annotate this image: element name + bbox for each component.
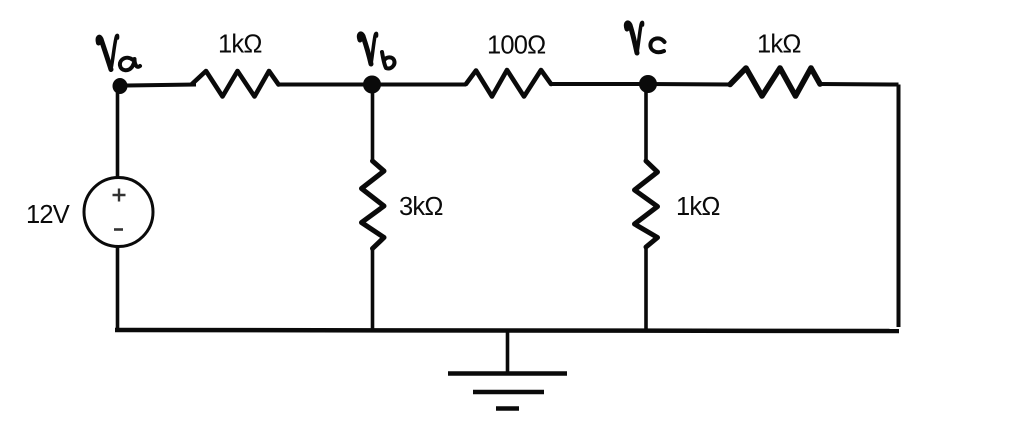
plus sign	[113, 189, 126, 202]
wire R3 to right corner	[820, 82, 899, 87]
wire Vb to R2	[372, 83, 466, 87]
wire right vertical	[897, 85, 901, 328]
wire source to bottom rail	[116, 246, 120, 330]
node A (Va)	[113, 78, 128, 94]
wire R1 to Vb	[279, 83, 367, 87]
svg-text:3kΩ: 3kΩ	[399, 193, 443, 221]
wire R5 to bottom rail	[644, 247, 648, 330]
node C (Vc)	[639, 75, 657, 93]
resistor R4 3kΩ	[362, 161, 385, 249]
wire Va to R1	[123, 85, 196, 86]
resistor R3 1kΩ right	[730, 68, 820, 96]
svg-text:12V: 12V	[26, 201, 70, 229]
svg-text:100Ω: 100Ω	[487, 32, 545, 60]
ground	[448, 331, 567, 409]
wire Vc down to R5	[644, 84, 648, 161]
minus sign	[114, 228, 123, 231]
resistor R2 100Ω	[466, 70, 551, 97]
svg-text:1kΩ: 1kΩ	[757, 31, 801, 59]
wire Vb down to R4	[371, 85, 375, 162]
node label Vc	[626, 22, 664, 53]
svg-text:1kΩ: 1kΩ	[676, 193, 720, 221]
wire Va down to source	[116, 86, 120, 178]
wire R2 to Vc	[551, 82, 642, 86]
wire Vc to R3	[648, 82, 731, 87]
voltage source V1 12V	[84, 178, 153, 247]
wire bottom rail	[115, 330, 899, 331]
node label Va	[98, 35, 140, 70]
node label Vb	[359, 33, 394, 68]
wire R4 to bottom rail	[371, 249, 375, 331]
node B (Vb)	[363, 76, 381, 94]
resistor R1 1kΩ	[192, 71, 279, 97]
svg-text:1kΩ: 1kΩ	[218, 31, 262, 59]
resistor R5 1kΩ vertical	[635, 161, 658, 247]
